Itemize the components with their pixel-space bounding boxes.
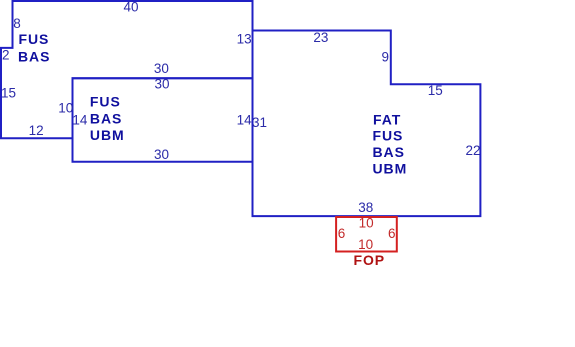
svg-text:10: 10 bbox=[358, 237, 373, 252]
svg-text:14: 14 bbox=[237, 113, 253, 128]
svg-text:15: 15 bbox=[428, 83, 443, 98]
svg-text:BAS: BAS bbox=[90, 110, 122, 126]
svg-text:FAT: FAT bbox=[373, 111, 401, 127]
svg-text:FUS: FUS bbox=[19, 31, 50, 47]
svg-text:UBM: UBM bbox=[90, 127, 125, 143]
svg-text:6: 6 bbox=[388, 226, 396, 241]
svg-text:BAS: BAS bbox=[373, 144, 405, 160]
svg-text:40: 40 bbox=[123, 0, 138, 14]
svg-text:31: 31 bbox=[252, 115, 267, 130]
svg-text:FOP: FOP bbox=[353, 252, 385, 268]
svg-text:10: 10 bbox=[359, 216, 374, 231]
svg-text:30: 30 bbox=[154, 61, 169, 76]
svg-text:FUS: FUS bbox=[373, 128, 404, 144]
svg-text:9: 9 bbox=[382, 50, 390, 65]
svg-text:12: 12 bbox=[29, 123, 44, 138]
svg-text:2: 2 bbox=[2, 48, 10, 63]
svg-text:10: 10 bbox=[58, 100, 73, 115]
svg-text:6: 6 bbox=[338, 226, 346, 241]
svg-text:UBM: UBM bbox=[373, 161, 408, 177]
svg-text:15: 15 bbox=[1, 85, 16, 100]
svg-text:22: 22 bbox=[465, 143, 480, 158]
svg-text:30: 30 bbox=[154, 77, 169, 92]
svg-text:13: 13 bbox=[237, 31, 252, 46]
svg-text:14: 14 bbox=[72, 113, 88, 128]
svg-text:38: 38 bbox=[358, 200, 373, 215]
svg-text:23: 23 bbox=[313, 30, 328, 45]
svg-text:8: 8 bbox=[13, 16, 21, 31]
svg-text:30: 30 bbox=[154, 147, 169, 162]
svg-text:FUS: FUS bbox=[90, 94, 121, 110]
svg-text:BAS: BAS bbox=[18, 48, 50, 64]
